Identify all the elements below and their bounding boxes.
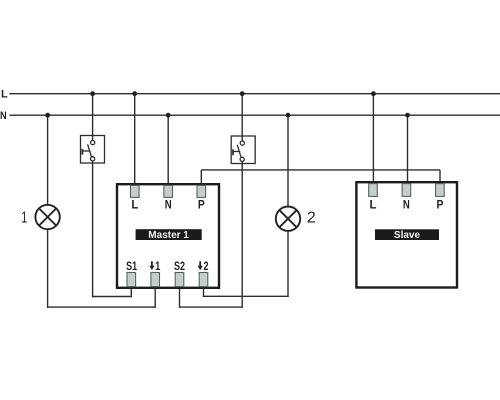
svg-text:N: N	[403, 199, 410, 212]
svg-text:1: 1	[21, 209, 27, 227]
svg-text:2: 2	[307, 209, 316, 226]
svg-text:Slave: Slave	[394, 230, 421, 241]
svg-text:L: L	[370, 198, 377, 211]
svg-text:Master 1: Master 1	[148, 230, 189, 241]
svg-text:P: P	[198, 199, 205, 212]
svg-text:P: P	[436, 199, 443, 212]
svg-text:N: N	[0, 110, 7, 122]
svg-text:1: 1	[155, 260, 160, 273]
svg-text:S1: S1	[126, 260, 137, 274]
svg-text:2: 2	[203, 260, 208, 274]
svg-text:N: N	[165, 199, 172, 212]
svg-text:S2: S2	[174, 260, 185, 274]
svg-text:L: L	[1, 88, 8, 100]
svg-text:L: L	[131, 198, 138, 211]
